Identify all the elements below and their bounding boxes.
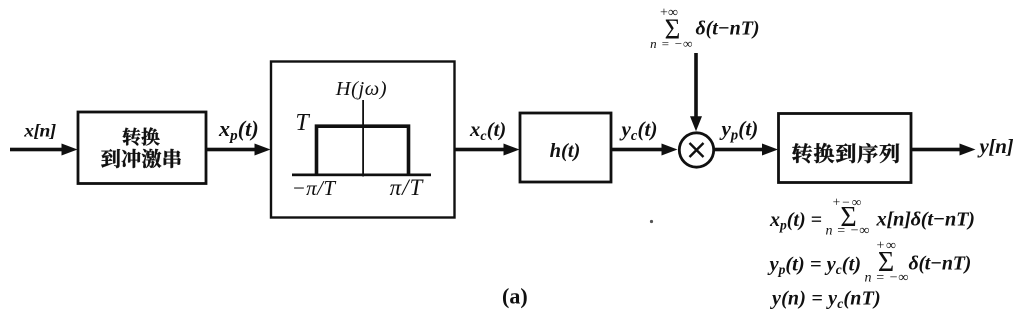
multiplier X symbol [690, 143, 704, 157]
block: h(t) box [520, 113, 611, 182]
svg-text:δ(t−nT): δ(t−nT) [696, 18, 760, 40]
svg-text:yc(t): yc(t) [619, 117, 658, 144]
svg-text:n = −∞: n = −∞ [864, 270, 908, 285]
svg-text:yp(t): yp(t) [719, 117, 759, 144]
filter vertical axis [362, 100, 364, 177]
filter response rectangle [317, 126, 409, 175]
label 转换 (line 1) [123, 127, 160, 145]
svg-text:xp(t): xp(t) [218, 116, 259, 144]
svg-text:T: T [295, 110, 310, 136]
equation 1: xp(t) = sum x[n]d(t-nT) [769, 195, 975, 239]
block: sequence converter box [779, 114, 912, 183]
svg-text:π/T: π/T [390, 175, 425, 200]
svg-text:xp(t) =: xp(t) = [769, 209, 822, 233]
multiplier circle [679, 133, 713, 167]
svg-text:(a): (a) [502, 284, 528, 309]
wire multiplier to sequence converter box [714, 144, 778, 156]
label 到冲激串 (line 2) [101, 149, 181, 168]
wire filter box to h(t) box [455, 144, 520, 156]
svg-text:n = −∞: n = −∞ [825, 224, 869, 239]
label 转换到序列 [792, 143, 899, 163]
block: lowpass filter H(jw) box [271, 62, 455, 218]
svg-text:y(n) = yc(nT): y(n) = yc(nT) [770, 288, 881, 312]
label sum delta(t-nT) above multiplier [650, 6, 759, 52]
equation 2: yp(t) = yc(t) sum d(t-nT) [767, 239, 971, 286]
svg-text:x[n]: x[n] [23, 121, 56, 141]
block: impulse-train converter box [78, 112, 206, 184]
svg-text:y[n]: y[n] [976, 137, 1013, 158]
svg-text:H(jω): H(jω) [335, 78, 387, 100]
svg-text:δ(t−nT): δ(t−nT) [909, 253, 971, 275]
wire h(t) box to multiplier [611, 144, 678, 156]
wire impulse train arrow down into multiplier [690, 53, 702, 131]
svg-text:−π/T: −π/T [292, 176, 337, 200]
svg-text:x[n]δ(t−nT): x[n]δ(t−nT) [876, 209, 975, 231]
wire input arrow into converter box [10, 144, 78, 156]
svg-text:h(t): h(t) [550, 140, 581, 162]
svg-text:n = −∞: n = −∞ [650, 36, 693, 51]
svg-text:xc(t): xc(t) [469, 119, 506, 144]
wire output arrow [911, 144, 976, 156]
wire box1 to filter box [206, 144, 271, 156]
filter horizontal axis [292, 174, 431, 177]
scan speck [650, 220, 653, 223]
